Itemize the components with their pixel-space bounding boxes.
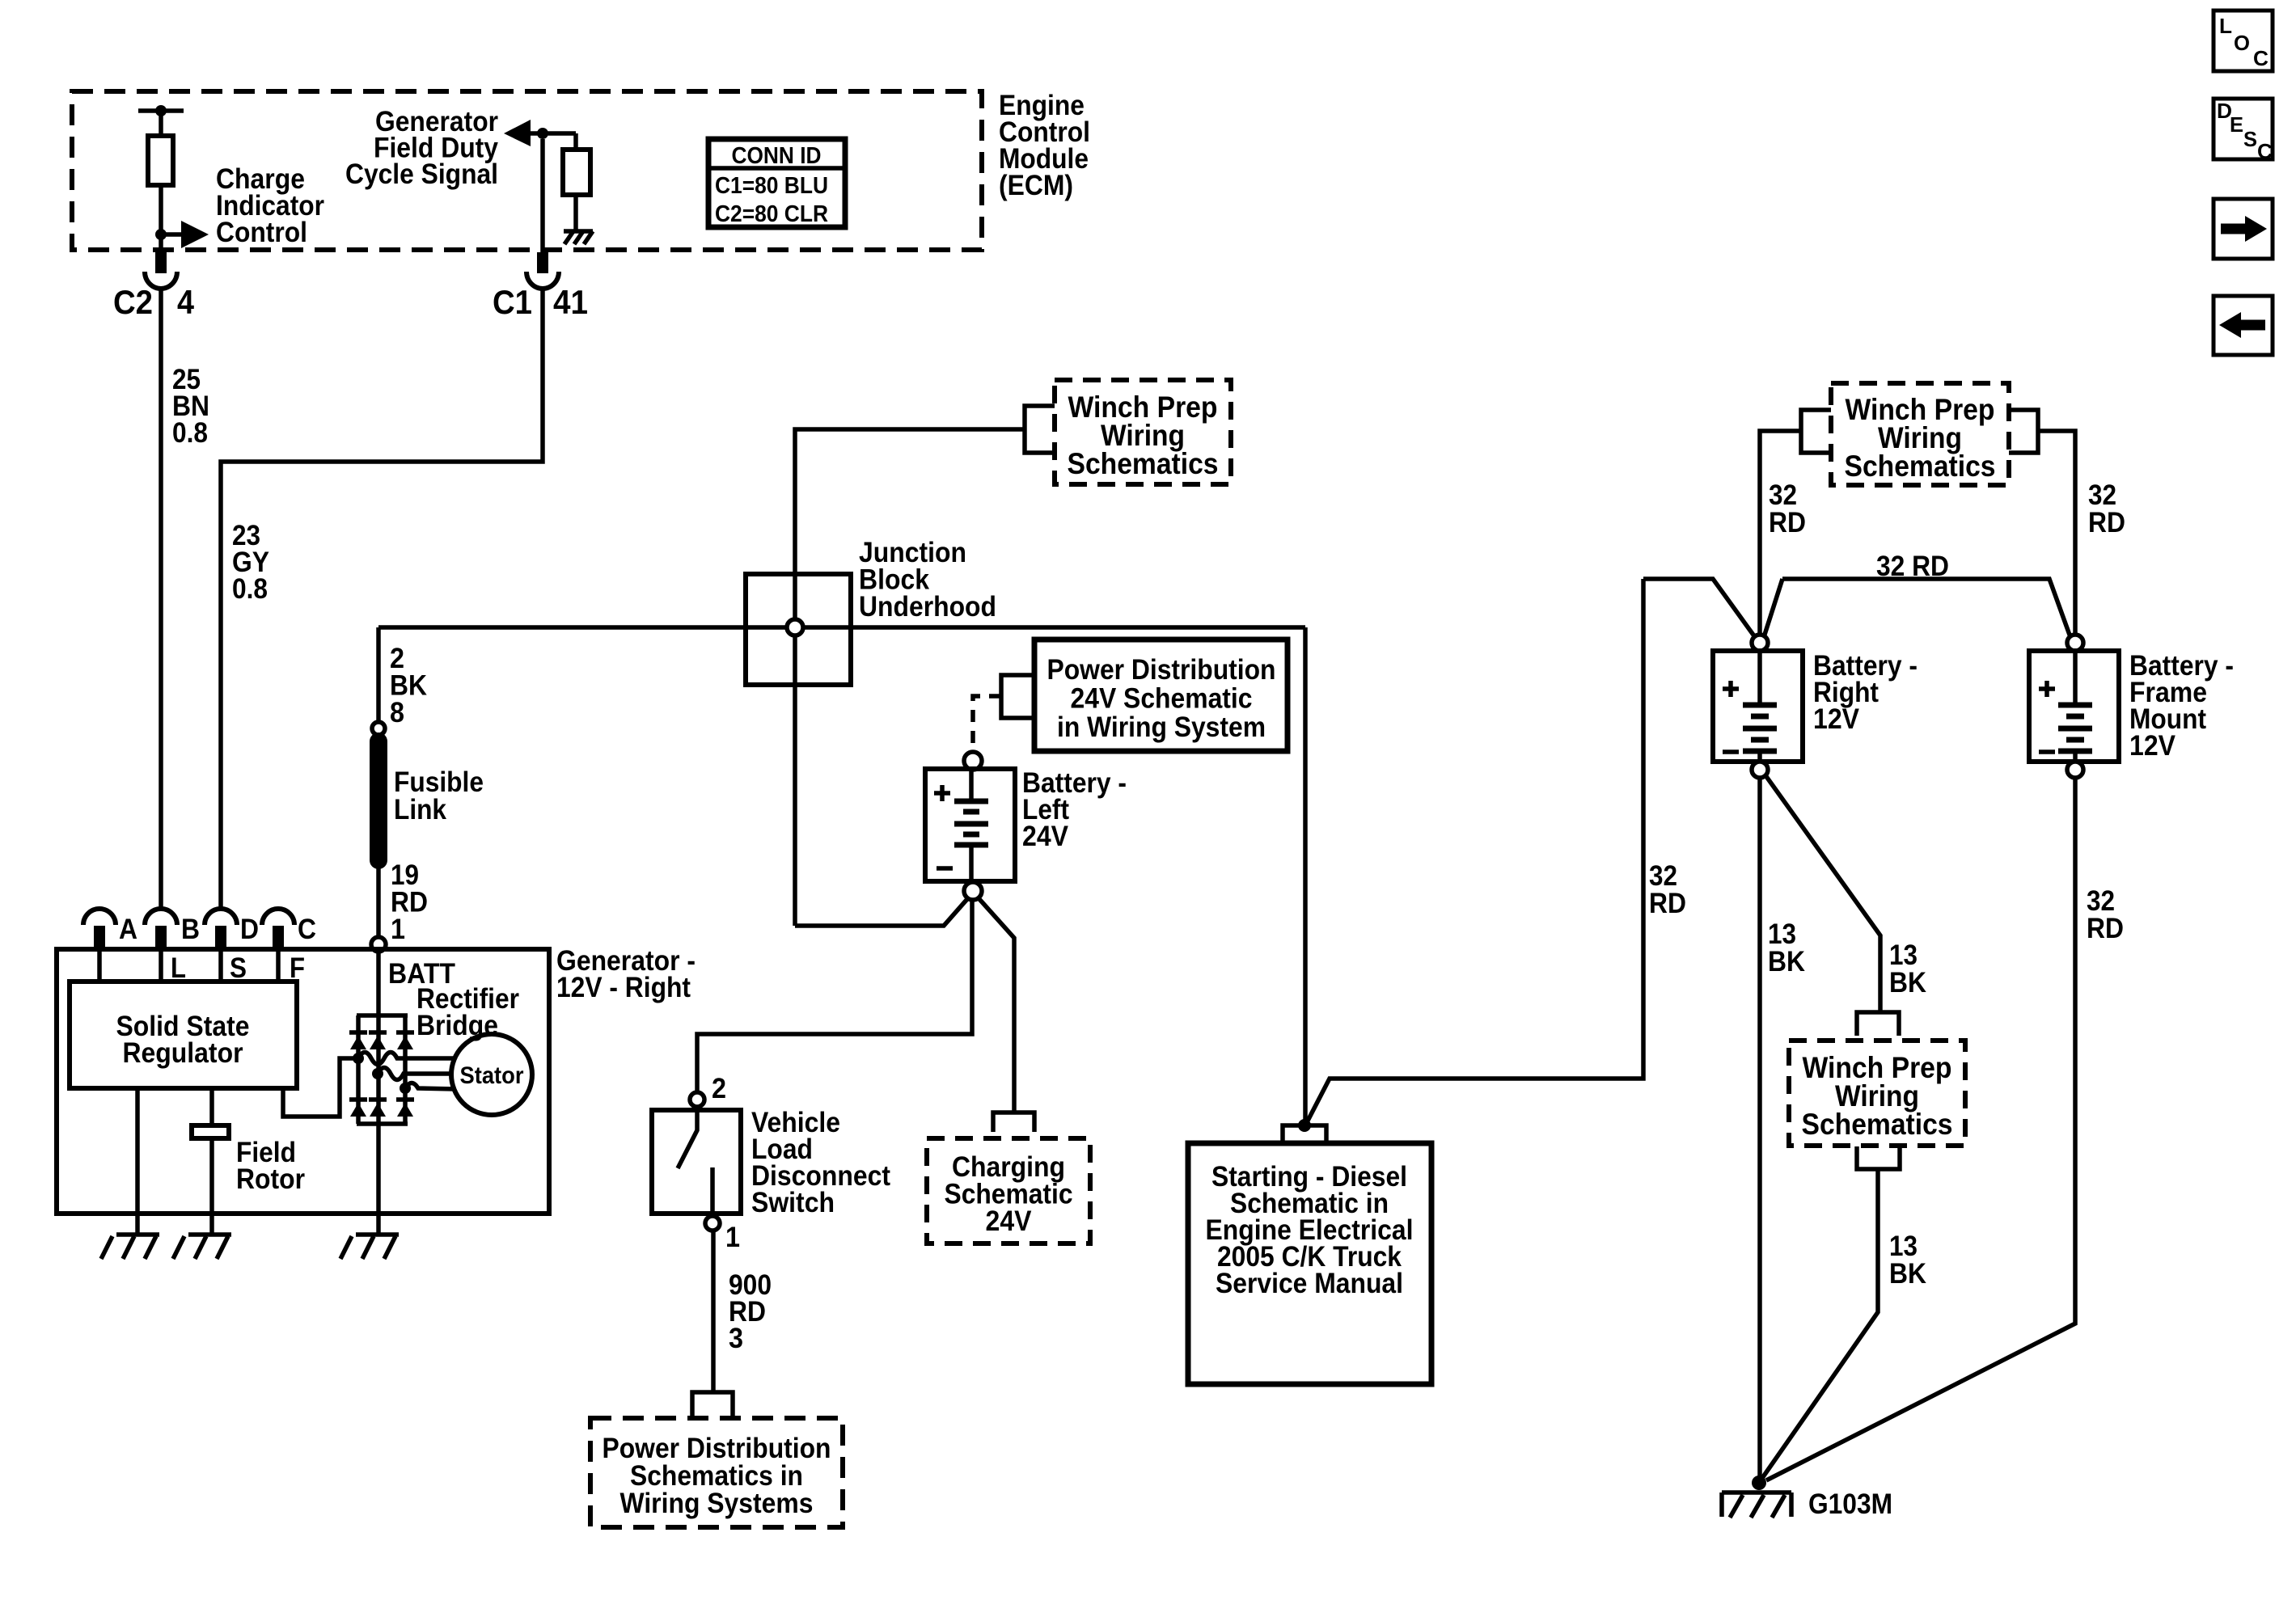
svg-text:24V: 24V xyxy=(986,1205,1033,1237)
svg-text:4: 4 xyxy=(177,283,195,321)
svg-text:Stator: Stator xyxy=(460,1062,524,1089)
svg-text:0.8: 0.8 xyxy=(172,417,208,449)
svg-text:RD: RD xyxy=(1649,888,1686,919)
svg-text:Power Distribution: Power Distribution xyxy=(1047,654,1276,686)
svg-text:24V: 24V xyxy=(1022,821,1069,852)
svg-text:BK: BK xyxy=(1889,1258,1926,1290)
svg-text:C: C xyxy=(298,914,316,945)
svg-text:1: 1 xyxy=(391,914,405,945)
svg-text:(ECM): (ECM) xyxy=(999,170,1073,201)
svg-text:L: L xyxy=(2219,14,2232,38)
svg-text:C: C xyxy=(2253,46,2269,70)
svg-text:C2=80 CLR: C2=80 CLR xyxy=(715,201,828,227)
svg-text:CONN ID: CONN ID xyxy=(732,143,822,169)
svg-text:2: 2 xyxy=(712,1073,726,1104)
svg-text:3: 3 xyxy=(729,1323,743,1354)
svg-text:Schematics: Schematics xyxy=(1068,447,1219,480)
svg-text:A: A xyxy=(119,914,137,945)
svg-text:D: D xyxy=(240,914,259,945)
svg-text:24V Schematic: 24V Schematic xyxy=(1071,683,1253,715)
svg-text:C1: C1 xyxy=(493,283,532,321)
svg-text:Schematics: Schematics xyxy=(1845,450,1996,483)
svg-text:Schematics: Schematics xyxy=(1802,1108,1953,1141)
svg-text:12V: 12V xyxy=(1813,703,1860,735)
svg-text:G103M: G103M xyxy=(1808,1488,1892,1520)
svg-text:C1=80 BLU: C1=80 BLU xyxy=(715,173,828,199)
svg-text:8: 8 xyxy=(390,697,404,728)
svg-text:12V - Right: 12V - Right xyxy=(556,972,691,1003)
svg-text:BK: BK xyxy=(1889,967,1926,998)
svg-text:1: 1 xyxy=(725,1222,740,1253)
svg-text:BK: BK xyxy=(1768,946,1805,977)
svg-text:RD: RD xyxy=(1769,507,1806,538)
svg-text:S: S xyxy=(2243,127,2257,151)
svg-text:C2: C2 xyxy=(113,283,153,321)
svg-text:Control: Control xyxy=(216,217,307,248)
svg-text:Wiring Systems: Wiring Systems xyxy=(620,1488,814,1519)
svg-text:RD: RD xyxy=(2088,507,2125,538)
svg-text:32 RD: 32 RD xyxy=(1876,551,1949,582)
svg-text:RD: RD xyxy=(2087,913,2124,944)
svg-text:Switch: Switch xyxy=(751,1187,835,1218)
svg-text:0.8: 0.8 xyxy=(232,573,268,605)
svg-text:Link: Link xyxy=(394,794,446,825)
svg-text:12V: 12V xyxy=(2129,730,2176,762)
svg-text:E: E xyxy=(2230,112,2243,137)
svg-text:Underhood: Underhood xyxy=(859,591,996,623)
svg-text:Cycle Signal: Cycle Signal xyxy=(345,158,498,190)
svg-text:C: C xyxy=(2257,139,2273,163)
svg-text:Rotor: Rotor xyxy=(236,1163,305,1195)
svg-text:in Wiring System: in Wiring System xyxy=(1057,711,1266,743)
svg-text:O: O xyxy=(2234,31,2250,55)
svg-text:41: 41 xyxy=(553,283,588,321)
svg-text:Bridge: Bridge xyxy=(416,1010,498,1041)
svg-text:Regulator: Regulator xyxy=(123,1037,243,1069)
svg-text:B: B xyxy=(181,914,200,945)
svg-text:Service Manual: Service Manual xyxy=(1216,1268,1403,1299)
